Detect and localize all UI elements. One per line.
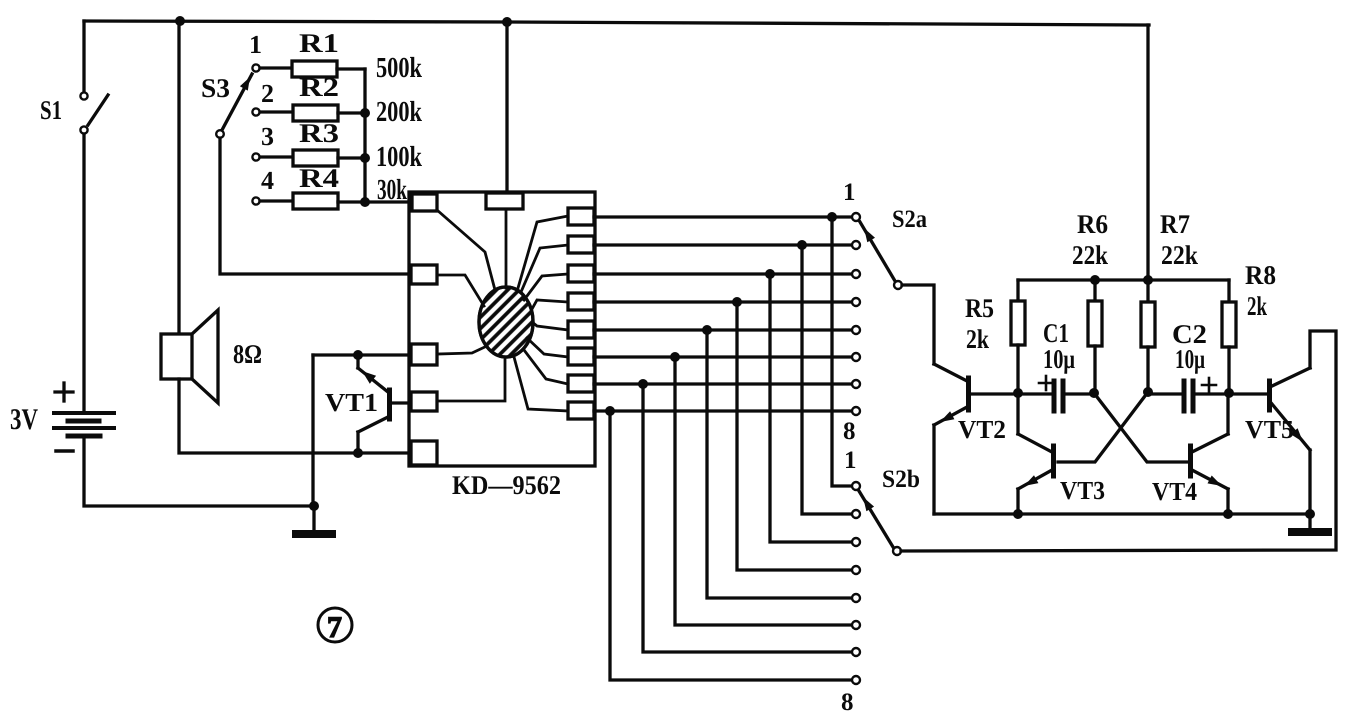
switch S1	[80, 21, 108, 134]
wire S3 pivot to IC pin 2	[220, 138, 411, 274]
wire R3 to bus	[338, 156, 365, 159]
switch S2b contacts	[852, 482, 860, 684]
wire IC out row 7	[594, 382, 852, 385]
switch S2a wiper	[860, 222, 902, 289]
switch S2b wiper	[859, 491, 901, 555]
svg-text:3: 3	[261, 122, 274, 151]
wire bond right5	[532, 322, 568, 330]
node VT1 collector junction	[353, 448, 363, 458]
node VT4 emitter rail	[1223, 509, 1233, 519]
svg-text:R1: R1	[299, 28, 339, 58]
pin pad top-center	[486, 193, 523, 209]
svg-text:30k: 30k	[377, 174, 408, 206]
wire supply drop	[1146, 25, 1149, 280]
resistor R2	[293, 105, 338, 121]
wire top rail to IC top pad	[505, 22, 508, 193]
node ground junction	[309, 501, 319, 511]
wire emitter line to IC pin	[313, 353, 411, 356]
wire drop row1 to S2b contact	[832, 217, 852, 486]
pin pad left 5	[411, 441, 437, 465]
transistor VT4	[1191, 393, 1229, 514]
svg-text:R4: R4	[299, 163, 339, 193]
svg-text:S3: S3	[201, 73, 230, 103]
node row1 branch	[827, 212, 837, 222]
wire drop row2 to S2b contact	[802, 245, 852, 514]
node row5 branch	[702, 325, 712, 335]
transistor VT1	[358, 355, 411, 453]
svg-text:8: 8	[843, 418, 856, 445]
svg-text:R3: R3	[299, 118, 339, 148]
node VT2 base junction	[1013, 388, 1023, 398]
svg-text:1: 1	[843, 179, 856, 206]
wire contact to R2	[260, 110, 293, 113]
pin pad right 1	[568, 208, 594, 225]
svg-text:7: 7	[327, 611, 342, 644]
resistor R3	[293, 150, 338, 166]
node S3 contact 2	[252, 108, 259, 115]
svg-text:2: 2	[261, 79, 274, 108]
svg-text:10μ: 10μ	[1175, 344, 1205, 374]
svg-text:VT5: VT5	[1245, 415, 1294, 444]
svg-text:100k: 100k	[376, 141, 423, 173]
resistor R5 2k	[1011, 280, 1025, 393]
wire bond left3	[437, 346, 487, 354]
svg-text:S2b: S2b	[882, 466, 920, 493]
node S3 contact 1	[252, 64, 259, 71]
wire IC out row 5	[594, 328, 852, 331]
wire bond left2	[437, 275, 484, 306]
wire drop row5 to S2b contact	[707, 330, 852, 598]
node bus R3	[360, 153, 370, 163]
svg-text:22k: 22k	[1161, 240, 1198, 270]
wire drop row8 to S2b contact	[610, 411, 852, 680]
svg-text:3V: 3V	[10, 403, 38, 436]
node C2 left R7 bottom	[1143, 387, 1153, 397]
pin pad right 2	[568, 236, 594, 253]
svg-text:R5: R5	[965, 293, 994, 323]
wire ground up to VT1 emitter line	[311, 355, 314, 506]
wire bond top-center	[505, 209, 508, 288]
pin pad right 5	[568, 321, 594, 338]
pin pad top-left	[412, 194, 437, 211]
wire multivibrator bottom rail	[934, 512, 1310, 515]
IC U1 KD-9562 body	[409, 192, 595, 466]
ground left	[296, 506, 332, 534]
wire R4 to bus	[338, 200, 365, 203]
resistor R1	[292, 61, 337, 77]
node VT5 emitter ground	[1305, 509, 1315, 519]
wire drop row6 to S2b contact	[675, 357, 852, 625]
pin pad right 3	[568, 265, 594, 282]
wire bond right7	[524, 350, 568, 384]
wire S1 to battery	[82, 134, 85, 411]
node top-left junction	[175, 16, 185, 26]
wire IC out row 4	[594, 300, 852, 303]
node row8 branch	[605, 406, 615, 416]
svg-text:R8: R8	[1245, 260, 1276, 290]
wire bond top-left	[437, 210, 495, 290]
svg-text:22k: 22k	[1072, 240, 1108, 270]
wire bond right8	[514, 357, 568, 411]
wire bond right4	[532, 300, 568, 309]
svg-text:200k: 200k	[376, 96, 423, 128]
svg-text:4: 4	[261, 166, 274, 195]
wire drop row4 to S2b contact	[737, 302, 852, 570]
capacitor C1 10u	[1018, 376, 1094, 411]
wire S2a wiper to VT2 collector	[902, 285, 934, 364]
svg-text:1: 1	[844, 447, 857, 474]
node bus R4	[360, 197, 370, 207]
switch S3	[216, 74, 252, 138]
node row7 branch	[638, 379, 648, 389]
speaker 8 ohm	[161, 310, 218, 403]
wire top supply rail	[84, 21, 1149, 25]
node row6 branch	[670, 352, 680, 362]
wire top rail to speaker	[177, 21, 180, 334]
svg-text:2k: 2k	[1247, 291, 1267, 321]
wire bond right6	[527, 338, 568, 357]
svg-text:S1: S1	[40, 95, 62, 125]
svg-text:VT4: VT4	[1152, 477, 1197, 506]
wire battery to ground rail	[84, 436, 314, 506]
wire bond right3	[524, 274, 568, 300]
svg-text:R2: R2	[299, 72, 339, 102]
node rail R7	[1143, 275, 1153, 285]
svg-text:10μ: 10μ	[1043, 344, 1075, 374]
wire IC out row 8	[594, 409, 852, 412]
pin pad right 4	[568, 293, 594, 310]
wire IC out row 6	[594, 355, 852, 358]
svg-text:500k: 500k	[376, 52, 423, 84]
node row4 branch	[732, 297, 742, 307]
svg-text:S2a: S2a	[892, 206, 927, 233]
transistor VT2	[934, 364, 1018, 514]
svg-text:VT2: VT2	[958, 415, 1006, 444]
battery 3V	[54, 383, 114, 451]
wire multivibrator top rail	[1018, 278, 1229, 281]
ground right	[1292, 514, 1328, 532]
svg-text:R6: R6	[1077, 209, 1108, 239]
wire drop row7 to S2b contact	[643, 384, 852, 652]
pin pad left 3	[411, 344, 437, 365]
wire IC out row 1	[594, 215, 852, 218]
node S3 contact 4	[252, 197, 259, 204]
wire bond right1	[518, 216, 568, 288]
node bus R2	[360, 108, 370, 118]
pin pad left 2	[411, 265, 437, 284]
capacitor C2 10u	[1148, 378, 1229, 411]
svg-text:8: 8	[841, 689, 854, 716]
node rail R6	[1090, 275, 1100, 285]
IC die hatched	[479, 287, 533, 357]
pin pad left 4	[411, 392, 437, 411]
pin pad right 7	[568, 375, 594, 392]
svg-text:1: 1	[249, 30, 262, 59]
wire R1 to bus	[337, 67, 365, 70]
wire S2b wiper to VT5 collector net	[901, 331, 1336, 551]
node row3 branch	[765, 269, 775, 279]
node C1 right R6 bottom	[1089, 388, 1099, 398]
node VT3 emitter rail	[1013, 509, 1023, 519]
wire IC out row 2	[594, 243, 852, 246]
wire bond right2	[521, 245, 568, 292]
node row2 branch	[797, 240, 807, 250]
svg-text:KD—9562: KD—9562	[452, 470, 561, 500]
svg-text:2k: 2k	[966, 324, 989, 354]
svg-text:8Ω: 8Ω	[233, 339, 262, 369]
svg-text:VT3: VT3	[1060, 476, 1105, 505]
resistor R4	[293, 193, 338, 209]
pin pad right 6	[568, 348, 594, 365]
figure number 7	[318, 608, 352, 642]
wire R2 to bus	[338, 111, 365, 114]
pin pad right 8	[568, 402, 594, 419]
wire cross couple to VT3 base	[1058, 392, 1148, 462]
wire speaker to VT1 collector line	[179, 379, 411, 453]
resistor R7 22k	[1141, 280, 1155, 392]
node C2 right R8 bottom	[1224, 388, 1234, 398]
node VT1 emitter junction	[353, 350, 363, 360]
svg-text:R7: R7	[1160, 209, 1190, 239]
wire contact to R1	[260, 66, 292, 69]
node top IC junction	[502, 17, 512, 27]
wire bond left4	[437, 357, 505, 401]
wire IC out row 3	[594, 272, 852, 275]
wire drop row3 to S2b contact	[770, 274, 852, 542]
wire cross couple to VT4 base	[1094, 393, 1187, 462]
node S3 contact 3	[252, 153, 259, 160]
wire contact to R4	[260, 199, 293, 202]
transistor VT3	[1018, 393, 1054, 514]
switch S2a contacts	[852, 213, 860, 415]
resistor R6 22k	[1088, 280, 1102, 393]
svg-text:VT1: VT1	[325, 388, 378, 417]
wire contact to R3	[260, 155, 293, 158]
wire resistor bus	[365, 69, 412, 202]
transistor VT5	[1229, 368, 1310, 514]
resistor R8 2k	[1222, 280, 1236, 393]
